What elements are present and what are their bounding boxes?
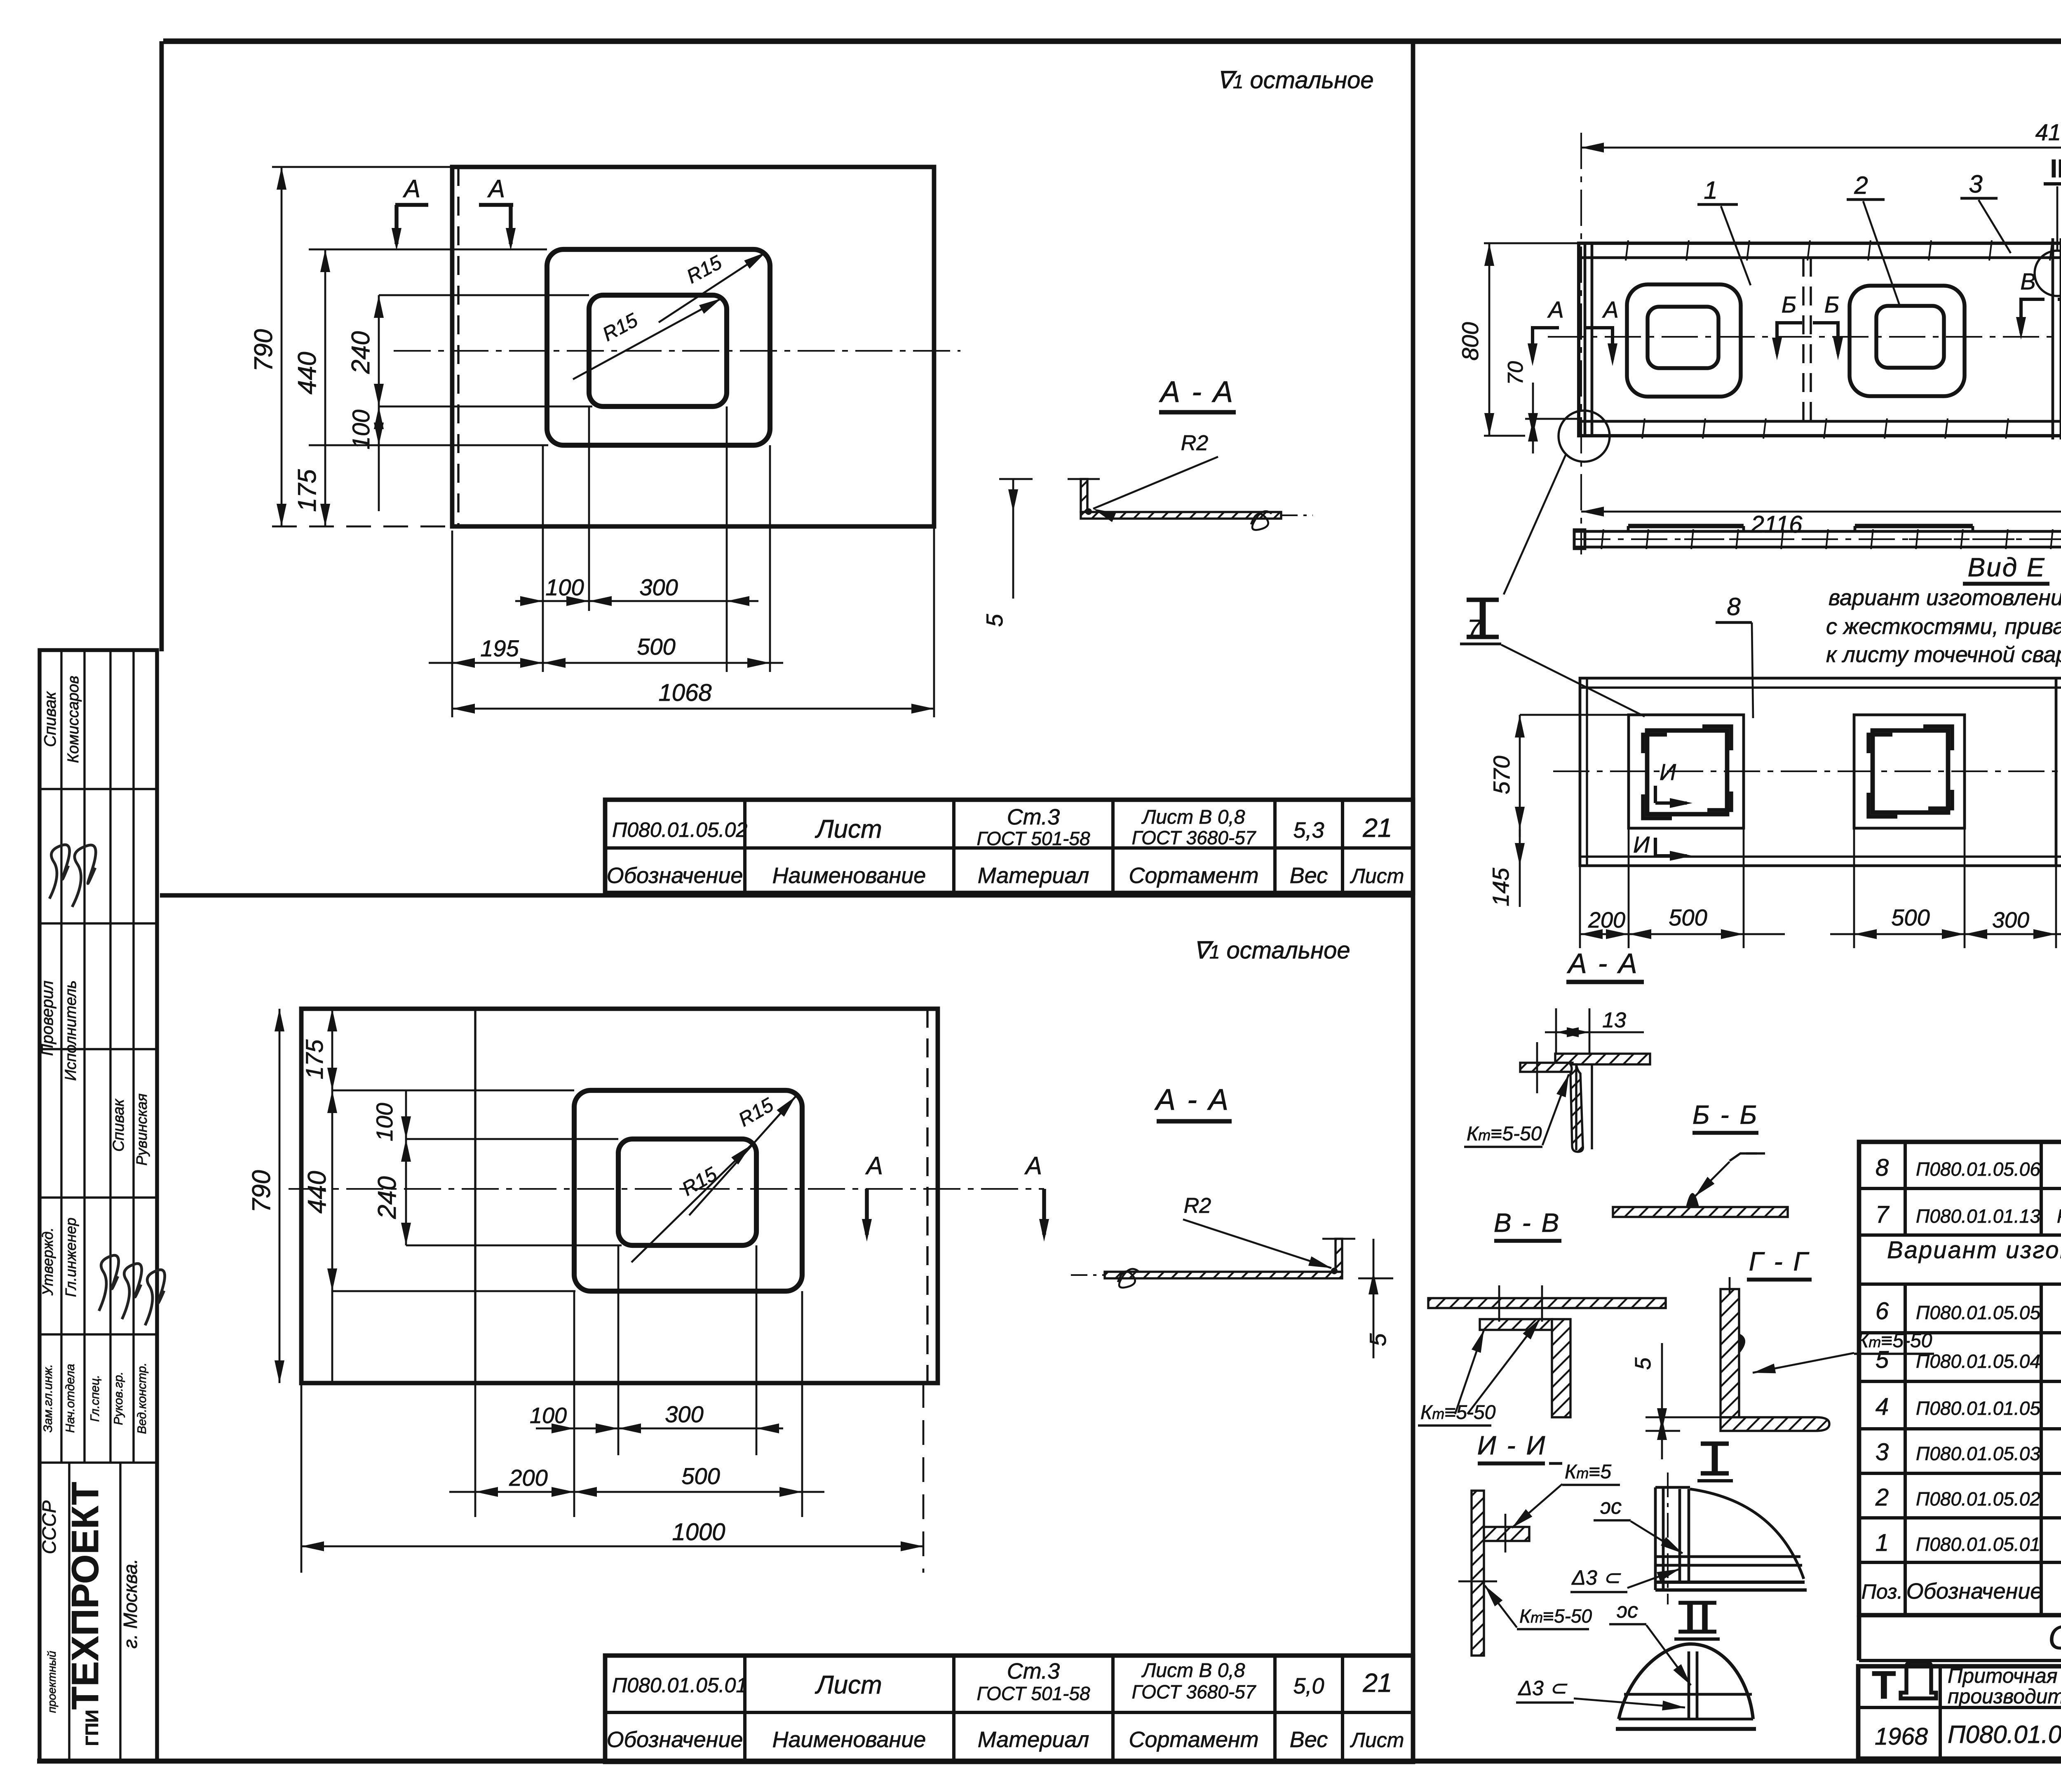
svg-text:Δ3 ⊂: Δ3 ⊂ [1518,1677,1567,1700]
bend dashed line left edge [457,167,459,526]
svg-text:3: 3 [1969,170,1982,198]
title block row divider [1858,1706,2061,1709]
svg-text:Наименование: Наименование [772,1727,926,1752]
svg-text:Утвержд.: Утвержд. [39,1227,56,1296]
svg-text:СССР: СССР [38,1501,60,1555]
section A-A top: bent sheet profile [1081,512,1281,519]
svg-text:А: А [487,175,505,202]
svg-text:Наименование: Наименование [772,863,926,888]
svg-text:ɔс: ɔс [1617,1599,1638,1623]
stamp vertical dividers [60,650,62,1463]
svg-text:Δ3 ⊂: Δ3 ⊂ [1571,1566,1621,1589]
view E opening 1 [1629,715,1744,828]
horizontal centerline bottom sheet [289,1188,1044,1190]
svg-text:г. Москва.: г. Москва. [120,1559,141,1649]
dimension 70 left of panel [1532,383,1534,453]
svg-text:Ст.3: Ст.3 [1007,1659,1060,1684]
dimension 100 below bottom panel [536,1428,783,1430]
svg-text:Кт≡5-50: Кт≡5-50 [1467,1123,1542,1145]
svg-text:300: 300 [639,574,678,600]
svg-text:П080.01.01.05: П080.01.01.05 [1916,1397,2040,1419]
section G-G horizontal leg [1721,1417,1829,1431]
dimension 100 bottom sheet [405,1090,407,1245]
edge strip left cap [1574,530,1585,549]
svg-text:R2: R2 [1184,1194,1211,1218]
svg-text:В: В [2020,268,2035,294]
svg-text:ГПИТЕХПРОЕКТ: ГПИТЕХПРОЕКТ [64,1482,106,1746]
R15 leader inner opening [573,298,721,379]
svg-text:ГОСТ 501-58: ГОСТ 501-58 [977,828,1090,849]
svg-text:Исполнитель: Исполнитель [62,980,80,1081]
spec table title band [1857,1615,1861,1660]
divider between upper and lower left mini-sheets [160,893,1413,898]
section B-B weld seam bump [1687,1194,1698,1207]
svg-text:2: 2 [1875,1484,1889,1511]
view E panel outline outer [1580,678,2061,866]
opening 2 inner [1876,306,1944,368]
svg-text:И: И [1660,759,1676,785]
dimension 100 bottom [515,600,758,602]
svg-text:Проверил: Проверил [38,981,56,1056]
svg-text:21: 21 [1362,1668,1392,1698]
svg-text:7: 7 [1467,615,1482,642]
sheet frame bottom border [37,1759,2061,1764]
svg-text:∇1 остальное: ∇1 остальное [1193,937,1350,964]
dimension 440 bottom sheet [327,1090,337,1113]
stiffener divider middle solid [2052,238,2054,439]
extension line inner-rect top [379,294,589,296]
title block TD divider [1939,1666,1942,1759]
svg-text:21: 21 [1362,813,1392,843]
svg-text:П080.01.05.03: П080.01.05.03 [1916,1443,2040,1464]
view E opening 2 [1854,715,1965,828]
view E panel inner lines [1580,686,2061,688]
svg-text:к листу точечной сваркой: к листу точечной сваркой [1826,642,2061,667]
dimension 100 left [378,406,380,511]
dimension 5 section A-A top [1012,479,1014,599]
svg-text:Лист В 0,8: Лист В 0,8 [1141,806,1245,828]
section A-A bottom: bent sheet profile [1105,1272,1342,1278]
svg-text:Спивак: Спивак [110,1098,127,1152]
svg-text:1068: 1068 [658,679,711,706]
svg-text:500: 500 [637,634,675,660]
svg-text:Вариант изготовления листа с ж: Вариант изготовления листа с жесткостями… [1887,1237,2061,1264]
svg-text:1968: 1968 [1875,1723,1928,1750]
left vertical centerline [1580,133,1582,554]
svg-text:100: 100 [545,574,584,600]
label I glyph [1480,600,1486,637]
svg-text:Г - Г: Г - Г [1749,1247,1810,1276]
leader R2 top [1093,457,1218,509]
svg-text:ɔс: ɔс [1600,1495,1622,1519]
svg-text:Приточная вентиляционная камер: Приточная вентиляционная камера типа ПК1… [1948,1664,2061,1687]
edge strip tabs [1628,524,1744,528]
svg-text:5: 5 [1631,1357,1655,1370]
bottom edge dashed extension [272,526,452,528]
top edge extension line [272,166,452,168]
svg-text:ГОСТ 3680-57: ГОСТ 3680-57 [1132,1681,1256,1703]
section A-A right: lower sheet [1520,1063,1573,1072]
spec table header bottom line [1859,1614,2061,1617]
svg-text:5,0: 5,0 [1293,1674,1324,1698]
svg-text:6: 6 [1876,1298,1889,1325]
dimension 2116 [1581,511,2061,513]
stamp horizontal dividers [40,788,157,790]
surface squiggle A-A top [1251,511,1272,530]
section G-G leg top tick [1729,1277,1731,1294]
svg-text:Обозначение: Обозначение [1906,1579,2043,1604]
R15 leader big opening [659,252,766,322]
svg-text:100: 100 [348,410,375,450]
svg-text:Нач.отдела: Нач.отдела [63,1364,77,1433]
svg-text:А: А [865,1152,883,1179]
section I-I weld tick top [1505,1514,1507,1552]
panel horizontal centerline [1548,336,2061,338]
svg-text:500: 500 [1669,904,1707,930]
svg-text:Б: Б [1782,291,1796,317]
stamp signature 2 [72,845,96,907]
stitch ticks bottom band [1642,418,1645,439]
svg-text:145: 145 [1488,867,1514,906]
item table 2 row divider [605,1711,1413,1714]
section A-A right: upper sheet [1555,1054,1650,1064]
svg-text:П080.01.01.13: П080.01.01.13 [1916,1205,2040,1227]
R15 leader inner opening bottom [631,1145,751,1262]
svg-text:А - А: А - А [1159,376,1235,409]
panel outline sheet P080.01.05.02 [452,167,934,526]
svg-text:Кт≡5-50: Кт≡5-50 [1519,1605,1592,1627]
dimension 790 bottom sheet [279,1009,281,1383]
svg-text:А: А [1602,296,1618,322]
svg-text:Ребро жесткости: Ребро жесткости [2057,1205,2061,1227]
dimension 5 section A-A bottom [1373,1239,1375,1358]
section G-G vertical leg [1721,1289,1739,1417]
big rounded opening R15 [547,249,770,445]
svg-text:∇1 остальное: ∇1 остальное [1217,67,1374,94]
view E centerline [1553,770,2061,772]
section G-G weld bump [1739,1334,1744,1353]
svg-text:175: 175 [293,469,322,512]
section V-V angle leg [1552,1319,1570,1417]
svg-text:Материал: Материал [978,1727,1089,1752]
dimension 440 left [324,249,326,526]
stitch ticks top band [1626,240,1628,261]
edge strip ticks [1601,529,1603,549]
svg-text:Рувинская: Рувинская [133,1094,150,1166]
svg-text:300: 300 [1992,908,2029,932]
title block outline [1858,1666,2061,1759]
detail circle II [2035,251,2061,296]
svg-text:П080.01.05.05: П080.01.05.05 [1916,1302,2040,1323]
svg-text:5,3: 5,3 [1293,818,1324,843]
svg-text:8: 8 [1727,593,1741,620]
weld flag B-B [1730,1153,1757,1161]
dimension row 500/300/300/500 view E middle [1830,933,2061,935]
svg-text:П080.01.05.01: П080.01.05.01 [1916,1534,2040,1555]
section I-I vertical plate [1472,1491,1484,1656]
view E bottom extension verticals [1579,866,1581,948]
svg-text:200: 200 [1588,908,1625,932]
surface squiggle A-A bottom [1118,1269,1138,1287]
svg-text:П080.01.05.01: П080.01.05.01 [612,1674,747,1697]
dimension 570 view E [1519,715,1521,837]
dimension 1068 bottom [452,708,934,710]
dimension 200 below bottom panel [449,1491,824,1493]
svg-text:II: II [2050,155,2061,183]
stamp signature 1 [49,845,70,899]
edge strip mid line [1574,538,2061,540]
svg-text:И: И [1633,831,1650,857]
detail I title glyph [1712,1444,1718,1473]
svg-text:производительностью от 100 до: производительностью от 100 до 150 тыс. м… [1948,1685,2061,1708]
dimension 1000 below bottom panel [301,1545,923,1548]
spec table vertical lines upper [1904,1142,1907,1235]
dimension row 200/500 view E left [1580,933,1785,935]
item table 1 outline [605,800,1413,893]
dimension 145 view E [1519,829,1521,907]
inner rounded opening R15 bottom sheet [618,1139,756,1245]
detail I centerline [1667,1473,1669,1604]
svg-text:проектный: проектный [45,1651,58,1713]
dimension 800 left of panel [1488,243,1491,436]
section I-I weld tick bottom [1458,1581,1497,1583]
dimension 5 G-G [1661,1343,1663,1459]
panel assembly outer outline [1579,243,2061,436]
stamp lower block dividers [68,1463,70,1761]
svg-text:3: 3 [1876,1439,1889,1466]
svg-text:Обозначение: Обозначение [607,863,743,888]
svg-text:Гл.спец.: Гл.спец. [88,1375,102,1422]
svg-text:2: 2 [1854,171,1868,199]
svg-text:Поз.: Поз. [1861,1580,1903,1603]
svg-text:1000: 1000 [672,1519,725,1545]
item table 2 column lines [743,1656,746,1762]
item table 1 column lines [743,800,746,893]
svg-text:Б - Б: Б - Б [1692,1100,1758,1130]
svg-text:1: 1 [1876,1529,1889,1556]
opening 1 outer [1627,284,1741,397]
svg-text:А - А: А - А [1154,1083,1230,1116]
svg-text:5: 5 [1876,1346,1889,1373]
section V-V angle flange [1480,1319,1552,1330]
section A-A right: bent leg [1570,1064,1583,1152]
svg-text:ГОСТ 501-58: ГОСТ 501-58 [977,1683,1090,1704]
panel bottom inner angle line [1579,420,2061,423]
svg-text:500: 500 [681,1463,720,1489]
R15 leader big opening bottom [689,1097,796,1215]
panel left edge angle lines [1584,243,1587,436]
section V-V top plate [1428,1298,1666,1308]
svg-text:Материал: Материал [978,863,1089,888]
extension line inner-rect bottom [379,406,592,408]
weld leader B-B [1695,1162,1730,1196]
svg-text:175: 175 [301,1039,328,1080]
edge view strip outline [1574,531,2061,547]
label I leader [1504,454,1566,594]
svg-text:300: 300 [665,1401,703,1427]
svg-text:с жесткостями, приваренными: с жесткостями, приваренными [1826,614,2061,639]
sheet frame top border [163,38,2061,44]
leader R2 bottom [1183,1219,1331,1268]
spec table row lines [1859,1187,2061,1190]
svg-text:790: 790 [247,1170,276,1212]
svg-text:А - А: А - А [1566,948,1638,979]
dimension 790 left [281,167,283,526]
section I-I angle leg [1484,1527,1529,1541]
svg-text:Комиссаров: Комиссаров [65,676,82,763]
detail I corner bracket drawing [1654,1487,1657,1590]
section cut A right top [479,203,513,207]
svg-text:П080.01.05.02: П080.01.05.02 [1916,1488,2040,1510]
stamp outline [40,650,157,1761]
section A-A bottom: dash extension [1071,1274,1105,1276]
section A-A top: dash extension [1281,514,1313,516]
svg-text:195: 195 [480,635,519,661]
svg-text:Вид Е: Вид Е [1967,552,2045,582]
panel outline sheet P080.01.05.01 [301,1009,938,1383]
svg-text:Лист: Лист [815,1671,882,1699]
svg-text:Лист: Лист [815,815,882,843]
section B-B plate [1613,1207,1788,1217]
svg-text:ГОСТ 3680-57: ГОСТ 3680-57 [1132,827,1256,848]
svg-text:П080.01.05 Панель перекрытия: П080.01.05 Панель перекрытия. Детали [1948,1721,2061,1748]
svg-text:вариант изготовления панели: вариант изготовления панели [1829,585,2061,610]
dimension 195 bottom [429,662,783,664]
svg-text:Сортамент: Сортамент [1129,863,1258,888]
spec table vertical lines lower [1904,1284,1907,1615]
svg-text:В - В: В - В [1494,1208,1561,1238]
svg-text:5: 5 [981,614,1007,627]
stiffener divider 1 dashed [1802,258,1804,421]
svg-text:790: 790 [249,329,278,371]
dimension 240 left [378,295,380,406]
svg-text:440: 440 [293,352,322,394]
svg-text:Обозначение: Обозначение [607,1727,743,1752]
inner rounded opening R15 [589,295,727,406]
bend dashed line right edge [926,1009,928,1383]
stamp signature 3 [99,1255,119,1311]
svg-text:570: 570 [1488,756,1514,794]
dimension 4180 top [1581,147,2061,149]
svg-text:13: 13 [1602,1008,1626,1032]
extension lines bottom sheet [332,1090,574,1092]
dimension 13 section A-A [1545,1031,1644,1033]
svg-text:Вес: Вес [1290,1727,1328,1752]
extension line big-rect bottom [309,444,548,446]
inner fold line [474,1009,476,1383]
opening 1 inner [1648,307,1718,368]
svg-text:А: А [1547,296,1563,322]
svg-text:Лист: Лист [1350,864,1404,888]
svg-text:Вес: Вес [1290,863,1328,888]
view E middle divider [2055,678,2058,866]
svg-text:70: 70 [1504,361,1528,385]
svg-text:100: 100 [530,1403,567,1428]
svg-text:800: 800 [1457,322,1483,360]
svg-text:200: 200 [509,1465,547,1491]
svg-text:5: 5 [1365,1333,1391,1346]
svg-text:А: А [1024,1152,1042,1179]
sheet frame left border [160,41,164,651]
divider between left and right halves [1411,41,1415,1761]
svg-text:А: А [403,175,420,202]
opening 2 outer [1850,286,1965,396]
extension verticals below bottom panel [300,1383,303,1573]
svg-text:240: 240 [347,331,375,374]
stamp signature 4 [122,1264,142,1319]
svg-text:Спецификация.: Спецификация. [2048,1619,2061,1656]
svg-text:440: 440 [303,1171,331,1213]
extension line big-rect top [309,249,547,251]
svg-text:2116: 2116 [1751,511,1803,538]
item table 2 outline [605,1656,1413,1762]
big rounded opening R15 bottom sheet [574,1090,802,1291]
svg-text:Б: Б [1824,291,1839,317]
svg-text:500: 500 [1891,904,1930,930]
svg-text:Лист В 0,8: Лист В 0,8 [1141,1660,1245,1682]
svg-text:Сортамент: Сортамент [1129,1727,1258,1752]
detail II dome drawing [1619,1644,1753,1719]
svg-text:8: 8 [1876,1154,1889,1181]
svg-text:Ст.3: Ст.3 [1007,805,1060,829]
svg-text:П080.01.05.02: П080.01.05.02 [612,818,747,841]
dimension 240 bottom sheet [401,1116,411,1139]
weld dot A-A bottom [1331,1268,1338,1274]
svg-text:4: 4 [1876,1393,1889,1420]
svg-text:1: 1 [1704,176,1717,204]
panel top inner angle line [1579,256,2061,259]
detail II title glyph [1687,1603,1693,1632]
svg-text:Гл.инженер: Гл.инженер [62,1218,79,1297]
svg-text:П080.01.05.06: П080.01.05.06 [1916,1158,2040,1180]
svg-text:Спивак: Спивак [41,691,59,747]
spec table outline [1859,1142,2061,1615]
section cut A left top [395,203,428,207]
svg-text:Лист: Лист [1350,1729,1404,1752]
svg-text:П080.01.05.04: П080.01.05.04 [1916,1350,2040,1372]
extension verticals below panel [451,531,453,717]
svg-text:Т: Т [1872,1663,1896,1707]
section V-V weld ticks [1498,1285,1500,1322]
detail circle I [1559,411,1610,462]
stamp signature 5 [145,1270,165,1325]
weld tick A-A right [1536,1042,1538,1093]
svg-text:Зам.гл.инж.: Зам.гл.инж. [41,1364,55,1433]
svg-text:100: 100 [371,1103,397,1141]
svg-text:Руков.гр.: Руков.гр. [112,1372,125,1425]
svg-text:И - И: И - И [1477,1430,1547,1460]
svg-text:R2: R2 [1181,431,1209,455]
item table 1 row divider [605,846,1413,850]
weld dot A-A top [1085,508,1092,515]
svg-text:240: 240 [373,1176,401,1219]
svg-text:7: 7 [1876,1201,1890,1228]
horizontal centerline [394,350,960,352]
svg-text:Вед.констр.: Вед.констр. [135,1362,149,1434]
dimension 175 bottom sheet [331,1009,333,1383]
svg-text:4180: 4180 [2035,119,2061,145]
